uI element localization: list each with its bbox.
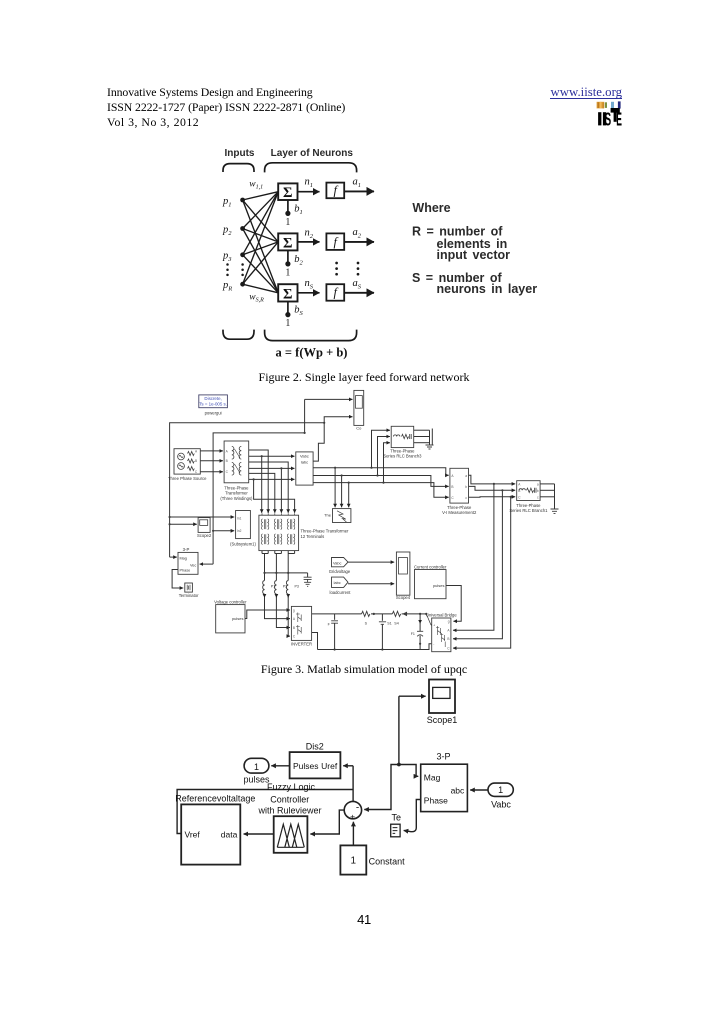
svg-text:12 Terminals: 12 Terminals — [301, 534, 325, 539]
svg-text:pulses: pulses — [433, 583, 445, 588]
svg-text:bS: bS — [294, 305, 303, 318]
svg-text:Series RLC Branch3: Series RLC Branch3 — [383, 454, 422, 459]
svg-text:neurons in layer: neurons in layer — [437, 282, 538, 296]
svg-text:Where: Where — [412, 201, 450, 215]
svg-text:B: B — [293, 626, 295, 630]
svg-text:b: b — [537, 489, 539, 493]
svg-text:Scope1: Scope1 — [427, 715, 458, 725]
svg-text:pR: pR — [222, 280, 232, 293]
svg-text:Layer of Neurons: Layer of Neurons — [271, 148, 354, 159]
svg-text:n2: n2 — [305, 227, 314, 240]
svg-text:n1: n1 — [305, 177, 314, 190]
svg-text:input vector: input vector — [437, 248, 511, 262]
svg-text:Universal Bridge: Universal Bridge — [426, 612, 457, 617]
svg-text:with Ruleviewer: with Ruleviewer — [257, 805, 321, 815]
svg-text:B: B — [447, 637, 449, 641]
svg-text:Σ: Σ — [283, 185, 292, 201]
svg-text:E: E — [616, 110, 622, 131]
svg-text:Iabc: Iabc — [334, 581, 341, 585]
svg-text:Ts = 1e-005 s.: Ts = 1e-005 s. — [199, 401, 227, 406]
svg-text:P1: P1 — [271, 585, 275, 589]
svg-text:Vec: Vec — [190, 563, 196, 567]
svg-text:S4: S4 — [394, 621, 398, 625]
svg-text:a2: a2 — [353, 227, 362, 240]
svg-text:p1: p1 — [222, 196, 232, 209]
svg-text:data: data — [221, 829, 238, 839]
svg-text:Σ: Σ — [283, 235, 292, 251]
svg-text:V-I Measurement2: V-I Measurement2 — [442, 510, 477, 515]
svg-text:In2: In2 — [237, 529, 242, 533]
svg-text:1: 1 — [285, 318, 290, 329]
svg-text:Scope4: Scope4 — [396, 595, 411, 600]
svg-text:Uref: Uref — [321, 761, 338, 771]
svg-text:Mag: Mag — [424, 772, 441, 782]
svg-text:Constant: Constant — [369, 856, 406, 866]
svg-text:(Three Windings): (Three Windings) — [220, 496, 253, 501]
svg-text:b1: b1 — [294, 204, 303, 217]
svg-text:In1: In1 — [237, 516, 242, 520]
svg-text:loadcurrent: loadcurrent — [330, 590, 352, 595]
svg-text:Vabc: Vabc — [333, 561, 341, 565]
svg-text:Three Phase Source: Three Phase Source — [168, 476, 207, 481]
svg-text:Vabc: Vabc — [491, 800, 511, 810]
svg-text:g: g — [293, 609, 295, 613]
svg-text:+: + — [350, 811, 355, 821]
svg-text:powergui: powergui — [205, 410, 222, 415]
svg-text:Gridvoltage: Gridvoltage — [329, 569, 351, 574]
svg-text:1: 1 — [498, 785, 503, 795]
svg-text:Phase: Phase — [424, 796, 448, 806]
svg-text:S: S — [605, 110, 612, 130]
svg-text:Scope2: Scope2 — [197, 533, 212, 538]
svg-text:pulses: pulses — [243, 775, 270, 785]
svg-text:1: 1 — [285, 217, 290, 228]
svg-text:Vabc: Vabc — [300, 454, 309, 459]
svg-text:S1: S1 — [387, 622, 391, 626]
svg-text:b2: b2 — [294, 254, 303, 267]
svg-text:S: S — [365, 621, 368, 625]
svg-text:g: g — [448, 620, 450, 624]
svg-text:Current controller: Current controller — [414, 564, 447, 569]
svg-text:a1: a1 — [353, 176, 362, 189]
svg-text:p2: p2 — [222, 225, 232, 238]
svg-text:w1,1: w1,1 — [249, 180, 263, 191]
svg-text:nS: nS — [305, 278, 314, 291]
svg-text:The: The — [324, 513, 332, 518]
svg-text:Mag: Mag — [180, 556, 187, 560]
svg-text:aS: aS — [353, 278, 362, 291]
svg-text:P3: P3 — [295, 585, 299, 589]
svg-text:B: B — [518, 489, 520, 493]
svg-text:Iabc: Iabc — [301, 459, 309, 464]
svg-text:B: B — [195, 459, 197, 463]
svg-text:a = f(Wp + b): a = f(Wp + b) — [276, 346, 348, 360]
svg-text:p3: p3 — [222, 251, 232, 264]
svg-text:-: - — [433, 642, 434, 646]
svg-text:a: a — [465, 474, 467, 478]
svg-text:B: B — [451, 485, 453, 489]
svg-text:Pulses: Pulses — [293, 761, 319, 771]
svg-text:Dis2: Dis2 — [306, 741, 324, 751]
svg-text:Terminator: Terminator — [179, 593, 199, 598]
svg-text:1: 1 — [254, 762, 259, 772]
svg-text:+: + — [433, 624, 435, 628]
svg-text:Voltage controller: Voltage controller — [214, 599, 247, 604]
svg-text:F: F — [328, 622, 331, 626]
svg-text:b: b — [465, 485, 467, 489]
svg-text:Co: Co — [356, 426, 362, 431]
svg-text:B: B — [226, 459, 228, 463]
svg-text:Σ: Σ — [283, 286, 292, 302]
svg-text:F1: F1 — [411, 632, 415, 636]
svg-text:Inputs: Inputs — [225, 148, 255, 159]
svg-text:Te: Te — [392, 813, 402, 823]
svg-text:a: a — [537, 482, 539, 486]
svg-text:3-P: 3-P — [183, 547, 190, 552]
svg-text:1: 1 — [285, 268, 290, 279]
svg-text:Vref: Vref — [185, 829, 201, 839]
svg-text:Series RLC Branch1: Series RLC Branch1 — [509, 508, 548, 513]
svg-text:-: - — [356, 802, 359, 813]
svg-text:Fuzzy Logic: Fuzzy Logic — [267, 782, 316, 792]
svg-text:wS,R: wS,R — [249, 293, 264, 304]
svg-text:Referencevoltaltage: Referencevoltaltage — [175, 794, 255, 804]
svg-text:P2: P2 — [283, 585, 287, 589]
svg-text:Three-Phase Transformer: Three-Phase Transformer — [301, 528, 350, 533]
svg-text:pulses: pulses — [232, 616, 244, 621]
svg-text:3-P: 3-P — [436, 752, 450, 762]
svg-text:Phase: Phase — [180, 568, 191, 572]
svg-text:Controller: Controller — [270, 795, 309, 805]
svg-text:1: 1 — [351, 856, 357, 867]
svg-text:(Subsystem1): (Subsystem1) — [230, 542, 256, 547]
svg-text:abc: abc — [451, 785, 465, 795]
svg-text:INVERTER: INVERTER — [291, 642, 312, 647]
